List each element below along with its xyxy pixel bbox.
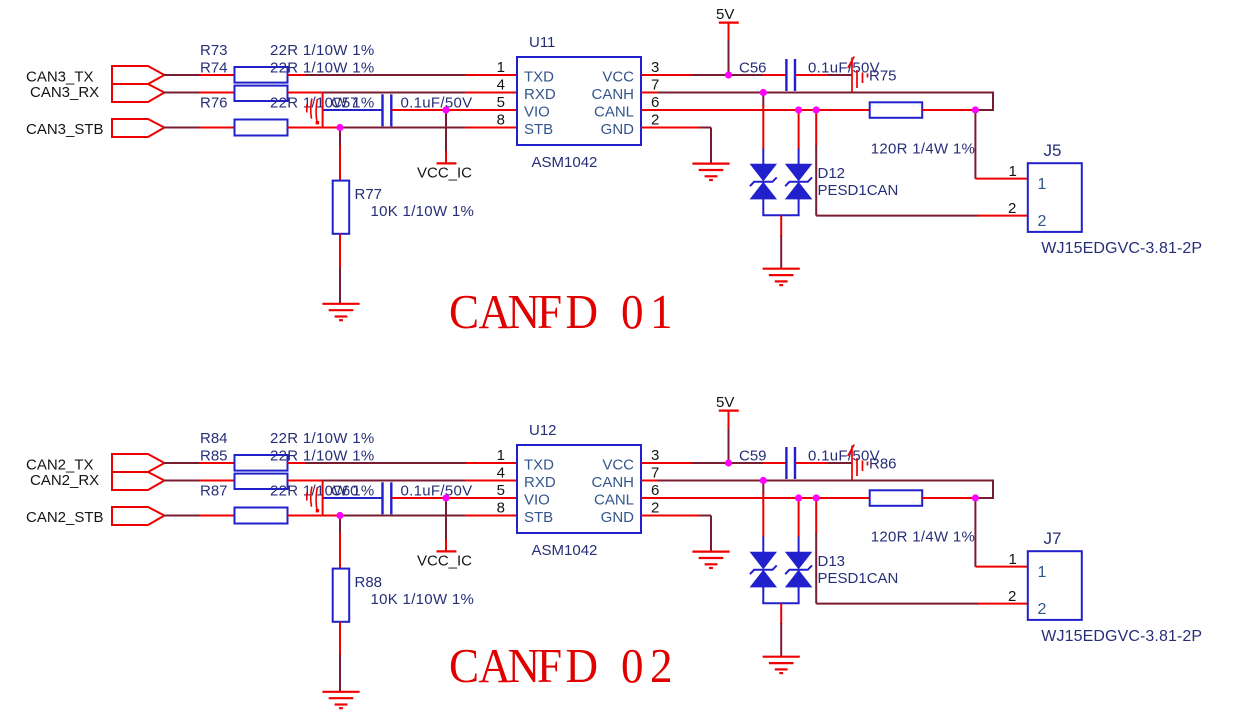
svg-text:2: 2 [1008, 200, 1016, 217]
svg-text:CANFD02: CANFD02 [449, 639, 673, 693]
wire STB junction to R77 [339, 128, 341, 147]
wire CANH corner down [992, 481, 994, 500]
wire TX port to R85 [164, 462, 200, 464]
svg-text:0.1uF/50V: 0.1uF/50V [401, 95, 473, 112]
power VCC_IC bar [437, 550, 457, 552]
wire R77 to ground [339, 234, 341, 268]
wire CANH drop to J5 pin1 [974, 110, 976, 179]
svg-text:CANFD01: CANFD01 [449, 285, 673, 339]
wire RX port to R76 [164, 92, 200, 94]
svg-text:R86: R86 [869, 456, 897, 473]
svg-text:1: 1 [1038, 176, 1047, 193]
resistor STB series [235, 508, 288, 524]
svg-text:R88: R88 [355, 574, 383, 591]
svg-text:8: 8 [497, 500, 505, 517]
port CAN3_STB [112, 119, 164, 137]
wire corner to CANH node [974, 497, 994, 499]
wire 120R to CANH junction [922, 109, 975, 111]
port CAN2_RX [112, 472, 164, 490]
wire 120R to CANH junction [922, 497, 975, 499]
ground under R77 [322, 303, 359, 305]
wire R76 to U pin4 [288, 92, 324, 94]
svg-text:CAN2_TX: CAN2_TX [26, 457, 94, 474]
power 5V bar [719, 410, 739, 412]
svg-text:2: 2 [651, 112, 659, 129]
svg-text:22R 1/10W 1%: 22R 1/10W 1% [270, 42, 374, 59]
svg-text:VCC: VCC [602, 69, 634, 86]
wire STB resistor to U pin8 [288, 127, 342, 129]
wire corner to CANH node [974, 109, 994, 111]
svg-text:D13: D13 [818, 553, 846, 570]
wire CANL to R75 [816, 109, 870, 111]
ground under D12 [763, 268, 800, 270]
wire C57 to VCC_IC node [392, 109, 447, 111]
svg-text:C57: C57 [331, 95, 359, 112]
svg-text:0.1uF/50V: 0.1uF/50V [401, 483, 473, 500]
power VCC_IC bar [437, 162, 457, 164]
wire junction to C59 [729, 462, 764, 464]
node CANH termination junction [972, 106, 979, 113]
diode D13 bottom leads [762, 587, 764, 603]
op-amp IC U11 body [517, 57, 641, 145]
wire U pin2 to ground [641, 127, 701, 129]
wire CANL to D13 anode [798, 498, 800, 537]
svg-text:5: 5 [497, 94, 505, 111]
wire STB port to resistor [164, 127, 200, 129]
svg-text:TXD: TXD [524, 457, 554, 474]
svg-text:STB: STB [524, 509, 553, 526]
red squiggle marks [307, 99, 318, 122]
red squiggle marks right [848, 445, 868, 481]
svg-text:ASM1042: ASM1042 [532, 154, 598, 171]
svg-text:8: 8 [497, 112, 505, 129]
wire U pin6 CANL [641, 497, 799, 499]
svg-text:1: 1 [1009, 163, 1017, 180]
svg-text:U11: U11 [529, 34, 555, 51]
capacitor C59 plates [785, 447, 787, 479]
svg-text:C59: C59 [739, 448, 767, 465]
wire to J7 pin1 [974, 566, 976, 567]
ground at U pin2 [692, 550, 729, 552]
wire CANL to D12 anode [798, 110, 800, 149]
svg-text:R74: R74 [200, 60, 228, 77]
node CANL junction 1 [795, 106, 802, 113]
resistor R74 [235, 67, 288, 83]
svg-text:7: 7 [651, 465, 659, 482]
connector J5 body [1028, 163, 1082, 232]
wire CANL to R86 [816, 497, 870, 499]
port CAN3_TX [112, 66, 164, 84]
svg-text:4: 4 [497, 465, 505, 482]
resistor STB series [235, 120, 288, 136]
wire to J7 pin2 [816, 603, 978, 605]
svg-text:J5: J5 [1044, 141, 1062, 160]
svg-text:R76: R76 [200, 95, 228, 112]
power 5V bar [719, 22, 739, 24]
svg-text:6: 6 [651, 94, 659, 111]
wire C60 to VCC_IC node [392, 497, 447, 499]
svg-text:1: 1 [497, 447, 505, 464]
wire CANL between junctions [799, 497, 817, 499]
wire CANH corner down [992, 93, 994, 112]
svg-text:22R 1/10W 1%: 22R 1/10W 1% [270, 448, 374, 465]
svg-text:GND: GND [601, 509, 635, 526]
resistor R87 [235, 474, 288, 489]
wire C56 right stub [796, 74, 830, 76]
wire U pin3 to 5V junction [641, 462, 693, 464]
wire VCC_IC drop [445, 110, 447, 152]
svg-text:6: 6 [651, 482, 659, 499]
svg-text:R73: R73 [200, 42, 228, 59]
svg-text:120R 1/4W 1%: 120R 1/4W 1% [871, 529, 975, 546]
svg-text:GND: GND [601, 121, 635, 138]
node CANL junction 2 [813, 106, 820, 113]
port CAN3_RX [112, 84, 164, 102]
svg-text:VCC: VCC [602, 457, 634, 474]
wire D13 to ground [780, 603, 782, 624]
node VCC_IC junction [442, 494, 449, 501]
wire CANH to right corner [763, 480, 994, 482]
svg-text:U12: U12 [529, 422, 557, 439]
svg-text:CAN2_RX: CAN2_RX [30, 472, 99, 489]
node STB junction [336, 512, 343, 519]
capacitor C56 plates [785, 59, 787, 91]
wire stub at x322 [322, 481, 324, 516]
svg-text:2: 2 [1038, 213, 1047, 230]
svg-text:22R 1/10W 1%: 22R 1/10W 1% [270, 430, 374, 447]
wire CANH to right corner [763, 92, 994, 94]
wire U pin3 to 5V junction [641, 74, 693, 76]
svg-text:22R 1/10W 1%: 22R 1/10W 1% [270, 60, 374, 77]
svg-text:5V: 5V [716, 6, 734, 23]
node VCC_IC junction [442, 106, 449, 113]
wire D12 to ground [780, 215, 782, 236]
svg-text:3: 3 [651, 447, 659, 464]
svg-text:2: 2 [1038, 601, 1047, 618]
svg-text:1: 1 [1009, 551, 1017, 568]
svg-text:7: 7 [651, 77, 659, 94]
svg-text:CAN3_TX: CAN3_TX [26, 69, 94, 86]
port CAN2_TX [112, 454, 164, 472]
node CANH junction [760, 89, 767, 96]
capacitor C57 lead [323, 109, 382, 111]
resistor 120R R86 [870, 490, 923, 506]
svg-text:J7: J7 [1044, 529, 1062, 548]
svg-text:2: 2 [651, 500, 659, 517]
ground under D13 [763, 656, 800, 658]
svg-text:VCC_IC: VCC_IC [417, 165, 472, 182]
wire VCC_IC drop [445, 498, 447, 540]
svg-text:1: 1 [497, 59, 505, 76]
red squiggle marks right [848, 57, 868, 93]
svg-text:RXD: RXD [524, 86, 556, 103]
node CANL junction 1 [795, 494, 802, 501]
resistor 120R R75 [870, 102, 923, 118]
svg-text:D12: D12 [818, 165, 846, 182]
wire STB junction to R88 [339, 516, 341, 535]
wire R88 to ground [339, 622, 341, 656]
wire U pin7 CANH [641, 480, 659, 482]
svg-text:C56: C56 [739, 60, 767, 77]
svg-text:CAN2_STB: CAN2_STB [26, 509, 104, 526]
svg-text:CAN3_RX: CAN3_RX [30, 84, 99, 101]
wire CANH to D13 anode [762, 481, 764, 495]
connector J7 body [1028, 551, 1082, 620]
svg-text:RXD: RXD [524, 474, 556, 491]
wire R85 to U pin1 [288, 462, 306, 464]
svg-text:R84: R84 [200, 430, 228, 447]
wire 5V drop [728, 411, 730, 429]
svg-text:120R 1/4W 1%: 120R 1/4W 1% [871, 141, 975, 158]
svg-text:R87: R87 [200, 483, 228, 500]
diode D13 left pair [751, 552, 776, 568]
svg-text:TXD: TXD [524, 69, 554, 86]
node CANL junction 2 [813, 494, 820, 501]
svg-text:2: 2 [1008, 588, 1016, 605]
svg-text:STB: STB [524, 121, 553, 138]
svg-text:CANH: CANH [591, 474, 634, 491]
diode D12 bottom leads [762, 199, 764, 215]
diode D12 left pair [751, 164, 776, 180]
svg-text:10K 1/10W 1%: 10K 1/10W 1% [371, 203, 475, 220]
capacitor C60 lead [323, 497, 382, 499]
svg-text:R85: R85 [200, 448, 228, 465]
capacitor C60 plates [381, 482, 383, 514]
wire R87 to U pin4 [288, 480, 324, 482]
diode D12 right pair [786, 164, 811, 180]
resistor R85 [235, 455, 288, 471]
svg-text:R75: R75 [869, 68, 897, 85]
wire STB port to resistor [164, 515, 200, 517]
wire C59 right stub [796, 462, 830, 464]
wire U pin2 to ground [641, 515, 701, 517]
svg-text:1: 1 [1038, 564, 1047, 581]
wire to J5 pin1 [974, 178, 976, 179]
svg-text:WJ15EDGVC-3.81-2P: WJ15EDGVC-3.81-2P [1041, 628, 1202, 645]
svg-text:R77: R77 [355, 186, 383, 203]
svg-text:3: 3 [651, 59, 659, 76]
wire VCC_IC node to U pin5 [446, 497, 517, 499]
svg-text:WJ15EDGVC-3.81-2P: WJ15EDGVC-3.81-2P [1041, 240, 1202, 257]
svg-text:CANH: CANH [591, 86, 634, 103]
wire RX port to R87 [164, 480, 200, 482]
port CAN2_STB [112, 507, 164, 525]
node CANH termination junction [972, 494, 979, 501]
wire STB resistor to U pin8 [288, 515, 342, 517]
wire CANH drop to J7 pin1 [974, 498, 976, 567]
svg-text:CANL: CANL [594, 104, 634, 121]
wire CANH to D12 anode [762, 93, 764, 107]
op-amp IC U12 body [517, 445, 641, 533]
svg-text:4: 4 [497, 77, 505, 94]
svg-text:C60: C60 [331, 483, 359, 500]
node STB junction [336, 124, 343, 131]
svg-text:5V: 5V [716, 394, 734, 411]
wire stub at x322 [322, 93, 324, 128]
capacitor C57 plates [381, 94, 383, 126]
node CANH junction [760, 477, 767, 484]
node 5V junction [725, 71, 732, 78]
svg-text:5: 5 [497, 482, 505, 499]
wire TX port to R74 [164, 74, 200, 76]
svg-text:PESD1CAN: PESD1CAN [818, 182, 899, 199]
wire U pin6 CANL [641, 109, 799, 111]
wire CANL between junctions [799, 109, 817, 111]
svg-text:ASM1042: ASM1042 [532, 542, 598, 559]
svg-text:CAN3_STB: CAN3_STB [26, 121, 104, 138]
wire junction to C56 [729, 74, 764, 76]
node 5V junction [725, 459, 732, 466]
resistor R76 [235, 86, 288, 101]
wire CANL drop to J7 pin2 [815, 498, 817, 534]
wire U pin7 CANH [641, 92, 659, 94]
wire 5V drop [728, 23, 730, 41]
svg-text:VIO: VIO [524, 104, 550, 121]
resistor R88 [333, 569, 350, 622]
svg-text:CANL: CANL [594, 492, 634, 509]
svg-text:VIO: VIO [524, 492, 550, 509]
svg-text:10K 1/10W 1%: 10K 1/10W 1% [371, 591, 475, 608]
wire R74 to U pin1 [288, 74, 306, 76]
wire CANL drop to J5 pin2 [815, 110, 817, 146]
wire to J5 pin2 [816, 215, 978, 217]
wire VCC_IC node to U pin5 [446, 109, 517, 111]
svg-text:VCC_IC: VCC_IC [417, 553, 472, 570]
ground at U pin2 [692, 163, 729, 165]
resistor R77 [333, 181, 350, 234]
ground under R88 [322, 691, 359, 693]
diode D13 right pair [786, 552, 811, 568]
red squiggle marks [307, 487, 318, 510]
svg-text:PESD1CAN: PESD1CAN [818, 570, 899, 587]
